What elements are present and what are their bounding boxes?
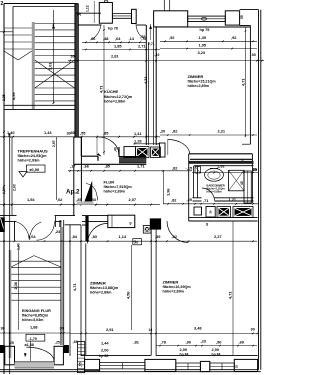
svg-text:KÜCHE: KÜCHE: [104, 89, 119, 94]
svg-text:,69: ,69: [239, 339, 245, 344]
svg-text:,20: ,20: [160, 129, 165, 134]
svg-text:3,23: 3,23: [198, 50, 206, 55]
svg-text:2,07: 2,07: [129, 197, 137, 202]
svg-text:26: 26: [209, 210, 213, 214]
svg-text:höhe=2,93m: höhe=2,93m: [18, 159, 41, 163]
svg-text:hp 84: hp 84: [212, 353, 221, 357]
svg-text:2,25: 2,25: [2, 94, 6, 101]
svg-text:ø1,38: ø1,38: [25, 343, 34, 347]
svg-text:hp 84: hp 84: [180, 353, 189, 357]
svg-text:,23: ,23: [201, 338, 207, 343]
svg-text:2,67: 2,67: [52, 140, 56, 147]
svg-text:,84: ,84: [72, 234, 78, 239]
svg-text:30: 30: [253, 167, 257, 172]
svg-text:,55: ,55: [79, 362, 83, 367]
svg-text:ZIMMER: ZIMMER: [188, 74, 204, 79]
svg-text:,78: ,78: [140, 34, 146, 39]
svg-text:30: 30: [60, 326, 64, 331]
svg-text:fläche=15,21Qm: fläche=15,21Qm: [188, 80, 217, 84]
svg-text:,90: ,90: [216, 339, 221, 344]
svg-text:4,71: 4,71: [228, 291, 233, 299]
svg-text:,40: ,40: [134, 240, 139, 244]
svg-text:Ap.2: Ap.2: [66, 189, 80, 196]
svg-text:,62: ,62: [57, 197, 63, 202]
svg-text:,64: ,64: [115, 36, 121, 41]
svg-text:30: 30: [71, 130, 75, 135]
svg-text:,25: ,25: [187, 197, 193, 202]
svg-text:höhe=2,89m: höhe=2,89m: [188, 84, 210, 88]
svg-text:,66: ,66: [84, 163, 90, 168]
svg-text:,83: ,83: [92, 234, 98, 239]
svg-text:2,00: 2,00: [212, 347, 220, 352]
svg-text:4,71: 4,71: [240, 78, 245, 86]
svg-text:fläche=16,39Qm: fläche=16,39Qm: [163, 285, 192, 289]
svg-text:4,56: 4,56: [126, 291, 131, 299]
svg-text:1,28: 1,28: [134, 138, 142, 143]
svg-text:2: 2: [1, 1, 4, 7]
svg-text:45: 45: [240, 181, 244, 185]
svg-text:8,99: 8,99: [11, 92, 16, 100]
svg-text:,66: ,66: [73, 339, 79, 344]
svg-text:höhe=3,03m: höhe=3,03m: [22, 318, 44, 322]
svg-text:,39: ,39: [155, 234, 161, 239]
svg-text:fläche=13,88Qm: fläche=13,88Qm: [90, 286, 119, 290]
svg-text:hp 82: hp 82: [99, 354, 108, 358]
svg-text:EINGANG FLUR: EINGANG FLUR: [22, 309, 51, 313]
svg-text:1,54: 1,54: [27, 197, 35, 202]
svg-text:,78: ,78: [161, 339, 167, 344]
svg-text:1,44: 1,44: [101, 340, 109, 345]
svg-text:1,71: 1,71: [137, 163, 145, 168]
svg-text:,14: ,14: [129, 36, 135, 41]
svg-text:,81: ,81: [134, 339, 140, 344]
svg-text:,23: ,23: [55, 229, 61, 234]
svg-text:55: 55: [240, 15, 244, 19]
svg-text:höhe=2,89m: höhe=2,89m: [104, 189, 126, 193]
svg-text:höhe=2,89m: höhe=2,89m: [90, 290, 112, 294]
svg-text:fläche=12,72Qm: fläche=12,72Qm: [104, 95, 133, 99]
svg-text:42: 42: [205, 222, 209, 226]
svg-text:fläche=7,915Qm: fläche=7,915Qm: [104, 185, 133, 189]
svg-text:fläche=8,85Qm: fläche=8,85Qm: [22, 314, 49, 318]
svg-text:-1,79: -1,79: [29, 337, 37, 341]
svg-text:,71: ,71: [203, 198, 209, 203]
svg-text:30: 30: [251, 326, 255, 331]
svg-text:4,71: 4,71: [98, 85, 103, 93]
svg-text:3,48: 3,48: [194, 325, 202, 330]
svg-text:,82: ,82: [171, 198, 177, 203]
svg-text:fläche=24,93Qm: fläche=24,93Qm: [18, 154, 48, 158]
svg-text:(4): (4): [77, 12, 81, 16]
svg-text:1,39: 1,39: [199, 35, 207, 40]
svg-text:1,64: 1,64: [28, 234, 36, 239]
svg-text:,25: ,25: [55, 341, 60, 345]
svg-text:,85: ,85: [105, 163, 111, 168]
svg-text:,85: ,85: [103, 131, 109, 136]
svg-text:2,21: 2,21: [218, 129, 226, 134]
svg-text:2,27: 2,27: [214, 234, 222, 239]
svg-text:-,10: -,10: [154, 53, 160, 57]
svg-text:1,14: 1,14: [119, 234, 127, 239]
svg-text:,55: ,55: [80, 131, 86, 136]
svg-text:1,88: 1,88: [30, 324, 38, 329]
svg-text:4,31: 4,31: [143, 76, 148, 84]
svg-text:hp 79: hp 79: [200, 28, 210, 32]
svg-text:1,41: 1,41: [134, 131, 142, 136]
svg-text:höhe=2,88m: höhe=2,88m: [207, 190, 223, 194]
svg-text:TREPPENHAUS: TREPPENHAUS: [18, 148, 49, 153]
svg-text:2,00: 2,00: [101, 348, 109, 353]
svg-text:,17: ,17: [70, 163, 75, 168]
svg-text:ZIMMER: ZIMMER: [163, 279, 179, 284]
svg-text:30: 30: [252, 52, 256, 57]
svg-text:,25: ,25: [9, 341, 14, 345]
svg-text:höhe=2,88m: höhe=2,88m: [104, 99, 126, 103]
svg-text:1,96: 1,96: [166, 188, 171, 196]
svg-text:14: 14: [149, 328, 153, 332]
svg-text:2,00: 2,00: [180, 347, 188, 352]
svg-text:FLUR: FLUR: [104, 179, 115, 184]
svg-text:4,71: 4,71: [72, 283, 77, 291]
svg-text:,66: ,66: [90, 36, 96, 41]
svg-text:,92: ,92: [169, 35, 175, 40]
svg-text:±0,00: ±0,00: [29, 167, 40, 172]
svg-text:hp 78: hp 78: [108, 27, 118, 31]
svg-text:2,81: 2,81: [111, 53, 119, 58]
svg-text:30: 30: [67, 131, 71, 136]
svg-text:ZIMMER: ZIMMER: [90, 280, 106, 285]
svg-text:höhe=2,89m: höhe=2,89m: [163, 289, 185, 293]
svg-text:,82: ,82: [172, 165, 178, 170]
svg-text:25: 25: [235, 364, 239, 368]
svg-text:2,36: 2,36: [13, 281, 18, 289]
svg-text:30: 30: [71, 53, 75, 58]
svg-text:2,91: 2,91: [106, 327, 114, 332]
svg-text:2,03: 2,03: [13, 184, 17, 191]
svg-text:3,01: 3,01: [48, 62, 53, 70]
svg-text:1,85: 1,85: [114, 44, 122, 49]
svg-text:,90: ,90: [186, 339, 191, 344]
svg-text:,40: ,40: [114, 147, 118, 152]
svg-text:2,71: 2,71: [148, 42, 155, 46]
svg-text:2,71: 2,71: [138, 44, 146, 49]
svg-text:,82: ,82: [172, 129, 178, 134]
svg-text:30: 30: [1, 326, 5, 331]
svg-text:1,43: 1,43: [44, 130, 52, 135]
svg-text:1,95: 1,95: [199, 43, 207, 48]
svg-text:42: 42: [129, 221, 133, 225]
svg-text:,82: ,82: [172, 234, 178, 239]
svg-text:1,12: 1,12: [86, 5, 90, 12]
svg-text:-,15: -,15: [186, 165, 194, 170]
svg-text:,92: ,92: [231, 35, 237, 40]
